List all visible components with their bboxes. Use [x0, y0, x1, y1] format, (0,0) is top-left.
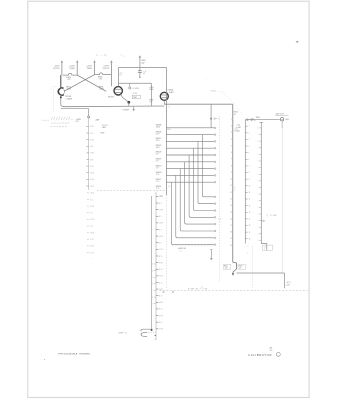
switch arm drop from plate wire [210, 104, 212, 128]
svg-text:3: 3 [231, 132, 232, 134]
svg-text:· 16: · 16 [200, 287, 203, 289]
lower wafer contact 6 [156, 229, 158, 231]
lower wafer left contact 1 [154, 263, 156, 265]
svg-text:6: 6 [231, 152, 232, 154]
left wafer lower contact 8 [87, 238, 89, 240]
switch contact right 5 [259, 153, 261, 155]
dashed screen arc [51, 86, 58, 89]
lower contact pin 10 [214, 196, 216, 198]
lower contact pin 15 [214, 230, 216, 232]
switch contact right 8 [259, 173, 261, 175]
svg-text:B 5: B 5 [90, 199, 93, 201]
svg-text:4: 4 [231, 139, 232, 141]
connector J845 [278, 118, 280, 120]
lower wafer left contact 6 [154, 296, 156, 298]
switch contact right 10 [259, 186, 261, 188]
termination arrow [232, 273, 234, 276]
lower wafer contact 4 [156, 215, 158, 217]
switch contact right 17 [259, 233, 261, 235]
gang dashed segment mid [172, 245, 214, 247]
svg-text:B 15: B 15 [159, 282, 162, 284]
gang dashed line lower [160, 290, 308, 292]
svg-text:9: 9 [249, 179, 250, 181]
svg-text:47 W: 47 W [159, 315, 163, 317]
supply arrow R885 [94, 61, 96, 64]
lower contact pin 14 [214, 223, 216, 225]
switch contact left 7 [245, 165, 247, 167]
svg-text:3: 3 [249, 139, 250, 141]
svg-text:C878: C878 [118, 74, 122, 76]
drop wire from R845E tap [189, 155, 214, 217]
tap wire R845F [166, 161, 214, 163]
contact pin 1 [214, 127, 216, 129]
svg-text:19 W: 19 W [159, 223, 163, 225]
switch gang dashed line upper [97, 190, 166, 192]
contact pin 9 [214, 181, 216, 183]
coax run faint [282, 128, 284, 273]
junction dot [127, 101, 130, 104]
switch contact right 9 [259, 180, 261, 182]
svg-text:TP – – – – 875: TP – – – – 875 [96, 55, 107, 57]
switch contact left 13 [245, 205, 247, 207]
svg-text:51 W: 51 W [159, 329, 163, 331]
lower contact pin 13 [214, 217, 216, 219]
svg-text:11: 11 [249, 192, 251, 194]
capacitor C880 [139, 58, 141, 70]
arm contact circles [247, 119, 249, 121]
switch contact left 5 [245, 152, 247, 154]
supply arrow +225V (left) [61, 61, 63, 64]
svg-text:W 42: W 42 [90, 219, 94, 221]
switch contact left 12 [245, 198, 247, 200]
svg-text:35 W: 35 W [159, 276, 163, 278]
left wafer lower contact 2 [87, 199, 89, 201]
svg-text:43 W: 43 W [159, 302, 163, 304]
switch contact left 11 [245, 191, 247, 193]
svg-text:THRU: THRU [69, 68, 75, 70]
supply arrow R876 [76, 61, 78, 64]
svg-text:un: un [71, 119, 73, 121]
switch bottom box [263, 245, 273, 250]
resistor R876 wire with hop [63, 73, 77, 75]
svg-text:15: 15 [230, 212, 232, 214]
lower wafer left contact 4 [154, 283, 156, 285]
svg-text:B 10: B 10 [90, 126, 93, 128]
switch contact right 2 [259, 134, 261, 136]
svg-text:W 30: W 30 [90, 193, 94, 195]
svg-text:13: 13 [230, 198, 232, 200]
lower wafer contact 12 [156, 268, 158, 270]
svg-text:14: 14 [230, 205, 232, 207]
svg-text:·· T 12: ·· T 12 [178, 250, 183, 252]
cathode junction square V875A [60, 97, 62, 99]
svg-text:4: 4 [249, 146, 250, 148]
wire drop right [284, 273, 286, 288]
svg-text:31 W: 31 W [159, 262, 163, 264]
supply arrow (right) [111, 61, 113, 64]
switch contact left 6 [245, 158, 247, 160]
switch contact left 18 [245, 238, 247, 240]
svg-text:15: 15 [249, 219, 251, 221]
svg-text:B 17: B 17 [159, 296, 162, 298]
wire y83 [119, 82, 152, 84]
bus second wire [61, 108, 89, 110]
svg-text:W 12: W 12 [90, 186, 94, 188]
svg-text:W 48: W 48 [90, 232, 94, 234]
svg-text:R·· 845K: R·· 845K [270, 215, 277, 217]
mod stamp hatching [42, 117, 70, 127]
lower contact pin 11 [214, 203, 216, 205]
svg-text:·1·8: ·1·8 [168, 106, 171, 108]
svg-text:2: 2 [231, 126, 232, 128]
tap wire R845H [166, 174, 214, 176]
lower wafer contact 5 [156, 222, 158, 224]
switch shaft dashed [252, 246, 254, 290]
lower wafer end mark [155, 334, 156, 336]
svg-text:17: 17 [249, 232, 251, 234]
svg-text:B 11: B 11 [90, 239, 93, 241]
tap wire R845G [166, 168, 214, 170]
svg-text:VOLTS: VOLTS [53, 68, 60, 70]
divider rail from top loop [165, 67, 167, 195]
-150V arrow [133, 106, 135, 110]
svg-text:18: 18 [234, 189, 236, 191]
switch output wire [245, 119, 278, 121]
svg-text:220K: 220K [67, 89, 72, 91]
switch contact left 10 [245, 185, 247, 187]
left wafer lower contact 4 [87, 212, 89, 214]
-150V arrow lower [210, 249, 212, 259]
plate lead V875B [110, 64, 112, 87]
switch contact left 9 [245, 178, 247, 180]
wire bus drop to wafer [88, 109, 90, 116]
svg-text:R858: R858 [101, 132, 105, 134]
left wafer lower contact 3 [87, 205, 89, 207]
svg-text:TO CRT: TO CRT [102, 125, 108, 127]
svg-text:R887: R887 [133, 97, 137, 99]
wafer dashed centerline [219, 116, 221, 282]
svg-text:R845·: R845· [256, 117, 261, 119]
svg-text:R841: R841 [224, 266, 228, 268]
lower wafer contact 17 [156, 301, 158, 303]
switch contact left 16 [245, 225, 247, 227]
junction dot swp [151, 329, 153, 331]
switch contact right 4 [259, 147, 261, 149]
lower wafer contact 10 [156, 255, 158, 257]
svg-text:}: } [267, 213, 268, 217]
left wafer contact 10 [87, 185, 89, 187]
svg-text:B 7: B 7 [159, 229, 162, 231]
svg-text:13: 13 [249, 205, 251, 207]
left wafer contact 1 [87, 125, 89, 127]
svg-text:10: 10 [249, 185, 251, 187]
wire left drop x118.6 [118, 67, 120, 86]
switch contact right 16 [259, 226, 261, 228]
svg-text:·8: ·8 [264, 249, 265, 251]
contact pin 5 [214, 154, 216, 156]
left wafer contact 8 [87, 172, 89, 174]
switch contact right 7 [259, 167, 261, 169]
contact pin 2 [214, 134, 216, 136]
left wafer contact 9 [87, 178, 89, 180]
drop wire from R845F tap [185, 162, 214, 224]
svg-text:+3 ··: +3 ·· [234, 187, 238, 189]
switch contact right 12 [259, 200, 261, 202]
svg-text:W 10: W 10 [90, 173, 94, 175]
lower wafer contact 8 [156, 242, 158, 244]
svg-text:B 19: B 19 [159, 309, 162, 311]
lower wafer contact 20 [156, 321, 158, 323]
svg-text:8: 8 [231, 165, 232, 167]
lower wafer SW845-2 body [155, 192, 157, 340]
wire tube to junction [121, 94, 128, 101]
switch contact right 11 [259, 193, 261, 195]
left wafer contact 4 [87, 145, 89, 147]
left wafer lower contact 7 [87, 232, 89, 234]
switch contact left 3 [245, 138, 247, 140]
svg-text:B 13: B 13 [90, 252, 93, 254]
supply arrow +225V C880 [139, 56, 141, 59]
svg-text:R843: R843 [239, 266, 243, 268]
svg-text:(TP): (TP) [159, 196, 163, 198]
lower wafer contact 21 [156, 328, 158, 330]
svg-text:19: 19 [230, 238, 232, 240]
wire to swp connector [151, 196, 153, 330]
svg-text:· 2: · 2 [247, 246, 249, 248]
lower wafer contact 3 [156, 209, 158, 211]
svg-text:(SWP ·T): (SWP ·T) [119, 333, 127, 335]
gang pins [163, 291, 165, 293]
drop wire from R845G tap [180, 169, 214, 231]
svg-text:J 845: J 845 [285, 119, 289, 121]
svg-text:TYPE 555/21A DELA·. TRIGGERS: TYPE 555/21A DELA·. TRIGGERS [58, 352, 91, 355]
switch contact left 1 [245, 125, 247, 127]
svg-text:1: 1 [249, 126, 250, 128]
lower contact pin 12 [214, 210, 216, 212]
svg-text:20: 20 [230, 245, 232, 247]
svg-text:OUT: OUT [75, 121, 79, 123]
tap wire R845A [166, 127, 214, 129]
contact pin 3 [214, 141, 216, 143]
page corner mark [296, 42, 299, 43]
svg-text:·R2: ·R2 [168, 186, 171, 188]
left wafer lower contact 1 [87, 192, 89, 194]
switch contact right 3 [259, 140, 261, 142]
switch contact left 8 [245, 172, 247, 174]
lower wafer contact 15 [156, 288, 158, 290]
left wafer contact 3 [87, 139, 89, 141]
grid lead V875B top [94, 64, 96, 75]
svg-text:B 13: B 13 [159, 269, 162, 271]
left wafer lower contact 9 [87, 245, 89, 247]
switch contact right 15 [259, 220, 261, 222]
wire plate out [163, 100, 165, 104]
grid lead V875A top [76, 64, 78, 76]
svg-text:· · – ·: · · – · [204, 79, 208, 81]
lower contact pin 17 [214, 244, 216, 246]
wire lower output [237, 272, 285, 274]
contact pin 6 [214, 161, 216, 163]
svg-text:14: 14 [249, 212, 251, 214]
left wafer SW845-1 body [88, 118, 90, 190]
tap wire R845E [166, 154, 214, 156]
lower wafer contact 1 [156, 195, 158, 197]
svg-text:16: 16 [249, 225, 251, 227]
svg-text:W 6: W 6 [90, 146, 93, 148]
arm contact [210, 118, 212, 120]
drop wire from R845J tap [171, 182, 214, 244]
tap wire R845J [166, 181, 214, 183]
svg-text:VOLTS: VOLTS [103, 68, 110, 70]
left wafer lower contact 5 [87, 218, 89, 220]
svg-text:12: 12 [249, 199, 251, 201]
plate output wire to switch [164, 103, 233, 105]
cross-coupling capacitor C875 diagonal [77, 75, 106, 91]
switch contact right 1 [259, 127, 261, 129]
svg-text:SW845 – – – – – –: SW845 – – – – – – [211, 91, 225, 93]
svg-text:+E 1.2: +E 1.2 [286, 282, 291, 284]
logo circle [276, 352, 280, 356]
left wafer contact 6 [87, 159, 89, 161]
drop wire from R845B tap [202, 135, 214, 197]
svg-text:B 66: B 66 [90, 179, 93, 181]
lower wafer left contact 7 [154, 303, 156, 305]
resistor R841 [223, 264, 230, 269]
switch contact left 14 [245, 211, 247, 213]
svg-text:B 9: B 9 [90, 226, 93, 228]
svg-text:7: 7 [249, 166, 250, 168]
svg-text:15 W: 15 W [159, 209, 163, 211]
svg-text:B 9: B 9 [159, 243, 162, 245]
svg-text:18: 18 [249, 238, 251, 240]
switch contact right 14 [259, 213, 261, 215]
svg-text:W 8: W 8 [90, 159, 93, 161]
svg-text:11: 11 [230, 185, 232, 187]
svg-text:W 54: W 54 [90, 246, 94, 248]
svg-text:+1 V/CM: +1 V/CM [132, 88, 139, 90]
plate lead V875A [61, 64, 63, 76]
svg-text:m SEC: m SEC [236, 127, 242, 129]
contact pin 7 [214, 168, 216, 170]
connector stem [281, 121, 283, 128]
svg-text:POWER: POWER [123, 110, 130, 112]
svg-text:▸: ▸ [44, 358, 45, 361]
lower wafer left contact 5 [154, 289, 156, 291]
left wafer contact 2 [87, 132, 89, 134]
switch contact right 13 [259, 206, 261, 208]
svg-text:5: 5 [249, 152, 250, 154]
lower wafer left contact 3 [154, 276, 156, 278]
svg-text:B 38: B 38 [90, 153, 93, 155]
cable rail from plate wire [233, 104, 237, 273]
wire cathode V875A to bus [60, 95, 62, 97]
svg-text:C A L I B R A T O R: C A L I B R A T O R [248, 353, 271, 357]
lower wafer contact 19 [156, 315, 158, 317]
lower contact pin 16 [214, 237, 216, 239]
resistor R885 wire with hop [95, 73, 112, 75]
svg-text:R886: R886 [149, 89, 153, 91]
svg-text:B 24: B 24 [90, 139, 93, 141]
svg-text:17: 17 [230, 225, 232, 227]
svg-text:B 21: B 21 [159, 322, 162, 324]
svg-text:1: 1 [231, 119, 232, 121]
cable connector symbol [141, 329, 152, 331]
svg-text:· 4: · 4 [247, 252, 249, 254]
drop wire from R845D tap [194, 148, 214, 210]
lower wafer contact 11 [156, 262, 158, 264]
svg-text:B 52: B 52 [90, 166, 93, 168]
svg-text:· 17: · 17 [218, 222, 221, 224]
lower wafer contact 9 [156, 248, 158, 250]
svg-text:12: 12 [230, 192, 232, 194]
switch left rail [244, 120, 246, 244]
test point stub [129, 83, 131, 87]
svg-text:W 36: W 36 [90, 206, 94, 208]
svg-text:B 7: B 7 [90, 213, 93, 215]
lower wafer contact 16 [156, 295, 158, 297]
switch contact left 17 [245, 231, 247, 233]
svg-text:2: 2 [249, 133, 250, 135]
contact pin 8 [214, 175, 216, 177]
svg-text:16: 16 [230, 218, 232, 220]
lower wafer contact 2 [156, 202, 158, 204]
svg-text:W: W [143, 73, 145, 75]
cross-coupling capacitor C885 diagonal [64, 75, 95, 92]
switch contact right 6 [259, 160, 261, 162]
left wafer contact 5 [87, 152, 89, 154]
emitter bus wire [64, 105, 165, 108]
left wafer contact 7 [87, 165, 89, 167]
switch contact left 2 [245, 132, 247, 134]
divider C884 R884 [150, 83, 152, 106]
lower wafer contact 14 [156, 281, 158, 283]
svg-text:8: 8 [249, 172, 250, 174]
tube V875B envelope [114, 87, 122, 95]
tube V875A envelope [58, 88, 64, 95]
right rail arm contact [263, 220, 265, 222]
svg-text:9: 9 [231, 172, 232, 174]
svg-text:V875B: V875B [108, 97, 114, 99]
tap wire R845D [166, 147, 214, 149]
svg-text:B 3: B 3 [159, 203, 162, 205]
svg-text:6: 6 [249, 159, 250, 161]
lower wafer contact 13 [156, 275, 158, 277]
svg-text:5: 5 [231, 145, 232, 147]
svg-text:B 11: B 11 [159, 256, 162, 258]
tap wire R845B [166, 134, 214, 136]
svg-text:S45: S45 [264, 247, 267, 249]
pin plug P (left wafer top) [88, 116, 90, 118]
resistor R843 [238, 264, 245, 269]
lower wafer contact 18 [156, 308, 158, 310]
left wafer lower contact 6 [87, 225, 89, 227]
svg-text:23 W: 23 W [159, 236, 163, 238]
svg-text:W 4: W 4 [90, 133, 93, 135]
switch right rail [261, 122, 267, 250]
svg-text:18: 18 [230, 232, 232, 234]
svg-text:220K: 220K [99, 89, 104, 91]
svg-text:+ 100: + 100 [236, 125, 240, 127]
svg-text:+: + [215, 289, 216, 291]
lower wafer left contact 2 [154, 270, 156, 272]
svg-text:10: 10 [230, 179, 232, 181]
switch contact left 15 [245, 218, 247, 220]
svg-text:561: 561 [270, 350, 273, 352]
lower wafer contact 7 [156, 235, 158, 237]
switch contact right 18 [259, 239, 261, 241]
tube V885B envelope [160, 92, 168, 100]
svg-text:7: 7 [231, 159, 232, 161]
